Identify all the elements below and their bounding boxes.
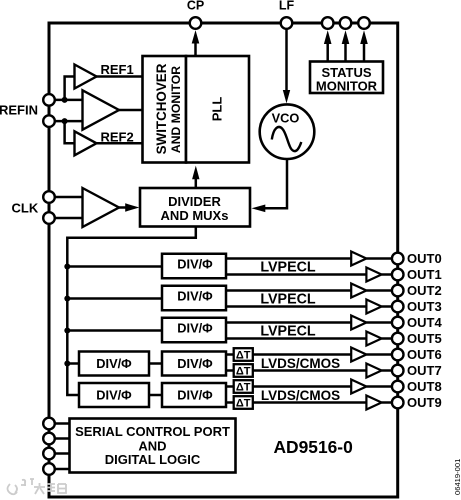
pin OUT7	[392, 365, 404, 377]
svg-text:DIV/Φ: DIV/Φ	[177, 321, 213, 336]
svg-text:ΔT: ΔT	[236, 398, 251, 410]
divider row3 DIV/phi	[162, 318, 226, 343]
chip outline border	[49, 23, 398, 497]
divider row1 DIV/phi	[162, 254, 226, 279]
wire CLK input 1 to buffer	[49, 196, 83, 199]
output buffer OUT9	[366, 396, 381, 410]
watermark	[8, 479, 67, 494]
svg-text:CLK: CLK	[12, 200, 39, 215]
wire row5 OUT9 line	[253, 401, 367, 404]
wire OUT5	[382, 337, 392, 340]
delta-t OUT6	[234, 348, 253, 362]
wire OUT2	[366, 289, 391, 292]
serial control port block	[70, 419, 236, 473]
wire divider to PLL feedback arrow	[195, 178, 198, 188]
buffer REF2	[75, 131, 97, 155]
pin OUT5	[392, 333, 404, 345]
pin OUT6	[392, 349, 404, 361]
wire row1 OUT1 line	[226, 273, 366, 276]
delta-t OUT9	[234, 396, 253, 410]
output buffer OUT1	[366, 268, 381, 282]
divider row5 first DIV/phi	[79, 383, 149, 407]
junction dot row4	[64, 361, 70, 367]
wire feed row1	[67, 265, 162, 268]
pin OUT4	[392, 317, 404, 329]
pin LF	[281, 17, 293, 29]
wire tap to REF2 buffer	[65, 121, 75, 143]
wire row5 to delta-t bottom	[226, 401, 234, 404]
junction dot REF1 tap	[62, 97, 68, 103]
wire OUT8	[366, 385, 391, 388]
divider row5 second DIV/phi	[162, 383, 226, 407]
svg-text:SERIAL CONTROL PORT: SERIAL CONTROL PORT	[75, 424, 230, 439]
svg-text:AND MUXs: AND MUXs	[161, 208, 229, 223]
pin serial 3	[43, 448, 55, 460]
delta-t OUT7	[234, 364, 253, 378]
svg-text:OUT2: OUT2	[407, 283, 442, 298]
svg-text:MONITOR: MONITOR	[316, 78, 378, 93]
svg-text:DIV/Φ: DIV/Φ	[177, 356, 213, 371]
svg-text:DIGITAL LOGIC: DIGITAL LOGIC	[105, 452, 201, 467]
wire CLK buffer to divider with arrow	[119, 206, 126, 209]
pin CLK-	[43, 212, 55, 224]
wire serial pin 4 stub	[49, 468, 70, 471]
svg-text:DIV/Φ: DIV/Φ	[96, 388, 132, 403]
wire row4 OUT7 line	[253, 369, 367, 372]
VCO oscillator	[260, 104, 315, 159]
wire OUT3	[382, 305, 392, 308]
svg-text:LVPECL: LVPECL	[260, 324, 316, 340]
wire row4 OUT6 line	[253, 353, 351, 356]
pin OUT8	[392, 381, 404, 393]
pin serial 4	[43, 463, 55, 475]
svg-text:06419-001: 06419-001	[453, 459, 461, 495]
wire OUT6	[366, 353, 391, 356]
wire diff buffer output	[119, 109, 143, 112]
divider row2 DIV/phi	[162, 286, 226, 311]
wire REF2 buffer output	[96, 142, 143, 145]
wire row5 link	[149, 394, 162, 397]
wire row4 to delta-t top	[226, 353, 234, 356]
PLL block	[186, 56, 249, 163]
svg-text:REFIN: REFIN	[0, 102, 38, 117]
wire row3 OUT5 line	[226, 337, 366, 340]
pin OUT2	[392, 285, 404, 297]
wire row5 to delta-t top	[226, 385, 234, 388]
svg-text:OUT9: OUT9	[407, 395, 442, 410]
wire OUT0	[366, 257, 391, 260]
pin status 3	[358, 17, 370, 29]
wire serial pin 2 stub	[49, 437, 70, 440]
wire feed row4	[67, 362, 79, 365]
svg-text:OUT0: OUT0	[407, 251, 442, 266]
pin REFIN-	[43, 115, 55, 127]
svg-text:SWITCHOVER: SWITCHOVER	[154, 63, 169, 154]
wire REF1 buffer output	[96, 75, 143, 78]
svg-text:OUT4: OUT4	[407, 315, 442, 330]
wire LF pin to VCO	[285, 29, 288, 91]
junction dot row3	[64, 328, 70, 334]
svg-text:OUT8: OUT8	[407, 379, 442, 394]
svg-text:DIVIDER: DIVIDER	[168, 194, 221, 209]
wire status monitor arrow 2	[344, 42, 347, 62]
wire feed row2	[67, 297, 162, 300]
svg-text:OUT3: OUT3	[407, 299, 442, 314]
svg-text:OUT6: OUT6	[407, 347, 442, 362]
svg-text:LVDS/CMOS: LVDS/CMOS	[261, 356, 340, 371]
pin OUT9	[392, 397, 404, 409]
pin OUT1	[392, 269, 404, 281]
wire feed row3	[67, 329, 162, 332]
switchover and monitor block	[143, 56, 187, 163]
pin OUT0	[392, 253, 404, 265]
svg-text:OUT7: OUT7	[407, 363, 442, 378]
wire OUT4	[366, 321, 391, 324]
divider row4 first DIV/phi	[79, 352, 149, 376]
output buffer OUT3	[366, 300, 381, 314]
svg-text:AD9516-0: AD9516-0	[274, 437, 353, 457]
wire row5 OUT8 line	[253, 385, 351, 388]
wire row3 OUT4 line	[226, 321, 351, 324]
wire divider output distribution bus	[67, 227, 196, 396]
svg-text:AND MONITOR: AND MONITOR	[169, 66, 183, 153]
wire serial pin 1 stub	[49, 422, 70, 425]
pin CLK+	[43, 191, 55, 203]
svg-text:LVPECL: LVPECL	[260, 260, 316, 276]
wire CLK input 2 to buffer	[49, 217, 83, 220]
junction dot REF2 tap	[62, 118, 68, 124]
junction dot row2	[64, 296, 70, 302]
svg-text:DIV/Φ: DIV/Φ	[177, 289, 213, 304]
wire row4 link	[149, 362, 162, 365]
pin CP	[190, 17, 202, 29]
pin serial 2	[43, 433, 55, 445]
svg-text:DIV/Φ: DIV/Φ	[96, 356, 132, 371]
svg-text:ΔT: ΔT	[236, 350, 251, 362]
junction dot row1	[64, 264, 70, 270]
wire status monitor arrow 1	[326, 42, 329, 62]
delta-t OUT8	[234, 380, 253, 394]
svg-text:CP: CP	[187, 0, 204, 13]
svg-text:OUT5: OUT5	[407, 331, 442, 346]
wire row4 to delta-t bottom	[226, 369, 234, 372]
wire serial pin 3 stub	[49, 452, 70, 455]
svg-text:VCO: VCO	[272, 111, 300, 126]
status monitor block	[310, 62, 383, 94]
svg-text:ΔT: ΔT	[236, 366, 251, 378]
wire tap to REF1 buffer	[65, 77, 75, 100]
buffer CLK	[83, 188, 120, 227]
svg-text:LF: LF	[279, 0, 295, 13]
pin OUT3	[392, 301, 404, 313]
wire OUT7	[382, 369, 392, 372]
wire OUT9	[382, 401, 392, 404]
wire REF input 2 to diff buffer	[49, 120, 83, 123]
wire OUT1	[382, 273, 392, 276]
divider row4 second DIV/phi	[162, 352, 226, 376]
wire row2 OUT3 line	[226, 305, 366, 308]
output buffer OUT2	[351, 284, 366, 298]
buffer REF1	[75, 65, 97, 89]
wire row2 OUT2 line	[226, 289, 351, 292]
svg-text:ΔT: ΔT	[236, 382, 251, 394]
wire REF input 1 to diff buffer	[49, 99, 83, 102]
output buffer OUT0	[351, 252, 366, 266]
output buffer OUT5	[366, 332, 381, 346]
wire status monitor arrow 3	[363, 42, 366, 62]
buffer REFIN differential	[83, 90, 120, 129]
wire PLL charge pump to CP pin	[194, 42, 197, 56]
divider and muxs block	[140, 188, 250, 227]
output buffer OUT6	[351, 348, 366, 362]
svg-text:LVDS/CMOS: LVDS/CMOS	[261, 388, 340, 403]
output buffer OUT4	[351, 316, 366, 330]
wire VCO to divider	[264, 159, 287, 208]
svg-text:PLL: PLL	[210, 97, 225, 122]
svg-text:DIV/Φ: DIV/Φ	[177, 257, 213, 272]
pin serial 1	[43, 418, 55, 430]
svg-text:DIV/Φ: DIV/Φ	[177, 388, 213, 403]
pin status 2	[340, 17, 352, 29]
svg-text:REF2: REF2	[101, 130, 134, 145]
pin status 1	[322, 17, 334, 29]
svg-text:OUT1: OUT1	[407, 267, 442, 282]
wire row1 OUT0 line	[226, 257, 351, 260]
svg-text:REF1: REF1	[101, 62, 134, 77]
output buffer OUT8	[351, 380, 366, 394]
output buffer OUT7	[366, 364, 381, 378]
pin REFIN+	[43, 94, 55, 106]
svg-text:LVPECL: LVPECL	[260, 292, 316, 308]
